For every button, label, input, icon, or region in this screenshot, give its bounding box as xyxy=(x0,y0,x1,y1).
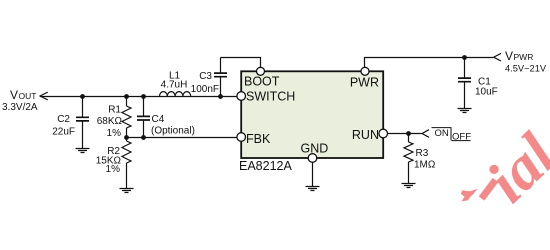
capacitor C1 plates xyxy=(458,78,471,82)
wire RUN net xyxy=(388,133,422,135)
arrow VPWR input xyxy=(494,53,501,61)
capacitor C2 plates xyxy=(76,117,89,121)
wire ON overline bracket xyxy=(432,128,471,141)
wire R1 top xyxy=(126,97,128,107)
node junction R3 xyxy=(406,131,411,136)
watermark i entry stroke xyxy=(482,180,496,199)
ground GND pin xyxy=(306,187,320,191)
node junction C3 xyxy=(218,94,223,99)
node junction C4 top xyxy=(141,94,146,99)
wire C1 branch xyxy=(464,58,466,109)
resistor R1 xyxy=(122,106,131,128)
svg-text:BOOT: BOOT xyxy=(244,75,280,89)
wire C3 vertical xyxy=(220,58,222,97)
svg-text:3.3V/2A: 3.3V/2A xyxy=(2,102,38,113)
resistor R3 xyxy=(404,142,413,162)
svg-text:22uF: 22uF xyxy=(52,127,75,138)
pin PWR circle xyxy=(361,67,369,75)
wire R2 top xyxy=(126,138,128,142)
wire C4 branch xyxy=(143,97,145,138)
wire FBK net xyxy=(127,137,238,139)
svg-text:GND: GND xyxy=(301,142,329,156)
wire R2 bottom xyxy=(126,163,128,188)
wire R3 bottom xyxy=(408,162,410,183)
svg-text:R3: R3 xyxy=(416,148,429,159)
svg-text:(Optional): (Optional) xyxy=(151,126,195,137)
svg-text:PWR: PWR xyxy=(350,76,379,90)
svg-text:4.7uH: 4.7uH xyxy=(161,80,188,91)
svg-text:C4: C4 xyxy=(152,114,165,125)
node junction C1 xyxy=(462,55,467,60)
ground R2 xyxy=(120,189,134,193)
svg-text:SWITCH: SWITCH xyxy=(246,90,295,104)
svg-text:1%: 1% xyxy=(106,164,121,175)
capacitor C3 plates xyxy=(214,73,227,77)
svg-text:RUN: RUN xyxy=(352,128,379,142)
svg-text:EA8212A: EA8212A xyxy=(239,159,292,173)
pin RUN circle xyxy=(379,129,388,138)
svg-text:C3: C3 xyxy=(199,71,212,82)
arrow VOUT output xyxy=(40,92,48,100)
svg-text:VOUT: VOUT xyxy=(10,88,36,102)
wire R1 bottom xyxy=(126,128,128,138)
svg-text:10uF: 10uF xyxy=(475,87,498,98)
inductor L1 xyxy=(160,92,191,97)
svg-text:VPWR: VPWR xyxy=(505,49,533,63)
wire PWR net xyxy=(365,58,494,68)
arrow RUN onoff xyxy=(422,130,429,138)
node junction R1 top xyxy=(124,94,129,99)
svg-text:1%: 1% xyxy=(107,128,122,139)
node junction R1 bottom xyxy=(124,135,129,140)
watermark t-tip xyxy=(461,189,478,202)
ground C1 xyxy=(458,109,472,113)
wire R3 top xyxy=(408,134,410,143)
svg-text:ON: ON xyxy=(435,128,449,139)
IC U1 EA8212A body xyxy=(241,71,383,158)
svg-text:100nF: 100nF xyxy=(191,84,219,95)
pin FBK circle xyxy=(237,133,246,142)
watermark Confidential (tail "ial" visible) xyxy=(461,121,550,216)
svg-text:C2: C2 xyxy=(57,114,70,125)
node junction C2 xyxy=(80,94,85,99)
svg-text:68KΩ: 68KΩ xyxy=(97,116,123,127)
wire VOUT net main xyxy=(40,96,237,98)
pin GND circle xyxy=(308,154,317,163)
node junction C4 bottom xyxy=(141,135,146,140)
capacitor C4 plates xyxy=(137,116,150,120)
svg-text:R1: R1 xyxy=(108,105,121,116)
pin BOOT circle xyxy=(257,67,265,75)
wire GND pin down xyxy=(312,162,314,186)
svg-text:1MΩ: 1MΩ xyxy=(414,160,436,171)
wire C2 branch xyxy=(82,97,84,149)
ground C2 xyxy=(76,149,90,153)
ground R3 xyxy=(402,184,416,188)
resistor R2 xyxy=(122,141,131,163)
wire BOOT net top xyxy=(221,58,261,68)
svg-text:4.5V~21V: 4.5V~21V xyxy=(505,64,547,74)
pin SWITCH circle xyxy=(237,92,246,101)
svg-text:FBK: FBK xyxy=(246,132,271,146)
